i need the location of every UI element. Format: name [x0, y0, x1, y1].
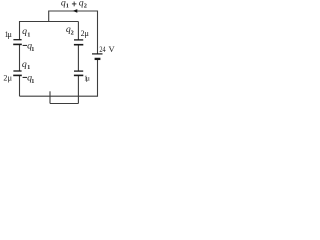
svg-text:1: 1 — [27, 32, 30, 39]
svg-text:μ: μ — [86, 73, 90, 82]
svg-text:1: 1 — [31, 46, 34, 53]
svg-text:1: 1 — [27, 64, 30, 71]
svg-text:2: 2 — [84, 2, 87, 9]
svg-text:V: V — [109, 44, 116, 54]
svg-text:1: 1 — [66, 2, 69, 9]
svg-text:24: 24 — [99, 44, 106, 54]
svg-text:1: 1 — [31, 78, 34, 85]
svg-text:2: 2 — [71, 29, 74, 36]
svg-text:μ: μ — [8, 72, 13, 82]
svg-text:μ: μ — [7, 29, 12, 39]
svg-text:μ: μ — [84, 28, 89, 38]
